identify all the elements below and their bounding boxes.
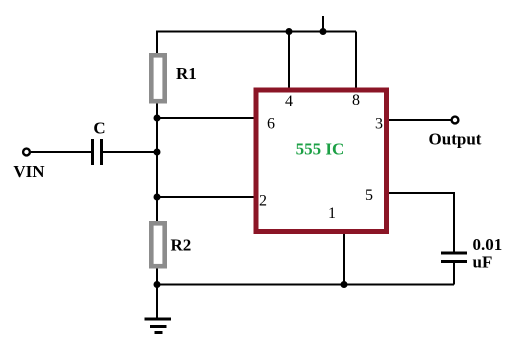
- svg-text:555 IC: 555 IC: [296, 140, 345, 159]
- terminal VIN: [23, 149, 30, 156]
- svg-text:R1: R1: [176, 64, 197, 83]
- capacitor C2 0.01uF plates: [441, 253, 467, 262]
- svg-text:2: 2: [259, 193, 267, 210]
- svg-text:3: 3: [375, 116, 383, 133]
- junction C: [154, 149, 161, 156]
- wire C to bus: [103, 151, 157, 153]
- wire pin8 drop: [355, 32, 357, 91]
- wire bottom rail: [157, 284, 454, 286]
- wire pin4 drop: [288, 32, 290, 91]
- resistor R2: [151, 223, 164, 266]
- wire pin1 drop: [343, 234, 345, 285]
- resistor R1: [151, 55, 164, 101]
- ground: [145, 319, 172, 333]
- junction pin2: [154, 194, 161, 201]
- svg-text:VIN: VIN: [13, 162, 45, 181]
- op-amp U1 555 IC body: [256, 90, 387, 232]
- junction pin1: [341, 281, 348, 288]
- junction bottom left: [154, 281, 161, 288]
- svg-text:uF: uF: [473, 253, 493, 272]
- capacitor C plates: [93, 139, 102, 165]
- svg-text:R2: R2: [171, 236, 192, 255]
- svg-text:6: 6: [267, 116, 275, 133]
- svg-text:C: C: [93, 119, 105, 138]
- terminal Output: [452, 117, 459, 124]
- wire VIN to C: [31, 151, 91, 153]
- label 0.01 uF: [473, 235, 503, 272]
- wire left vertical bus: [156, 32, 158, 320]
- svg-text:1: 1: [328, 205, 336, 222]
- wire C2 to bottom rail: [453, 262, 455, 285]
- wire top supply rail: [156, 31, 356, 33]
- wire pin2: [157, 196, 256, 198]
- wire pin3 to output: [387, 119, 451, 121]
- junction top pin4: [286, 28, 293, 35]
- power stub: [322, 16, 324, 32]
- svg-text:4: 4: [285, 93, 293, 110]
- svg-text:5: 5: [365, 187, 373, 204]
- junction power stub: [320, 28, 327, 35]
- wire pin6: [157, 117, 256, 119]
- junction pin6: [154, 115, 161, 122]
- svg-text:0.01: 0.01: [473, 235, 503, 254]
- svg-text:Output: Output: [429, 130, 482, 149]
- svg-text:8: 8: [352, 92, 360, 109]
- wire pin5 to C2: [387, 193, 454, 252]
